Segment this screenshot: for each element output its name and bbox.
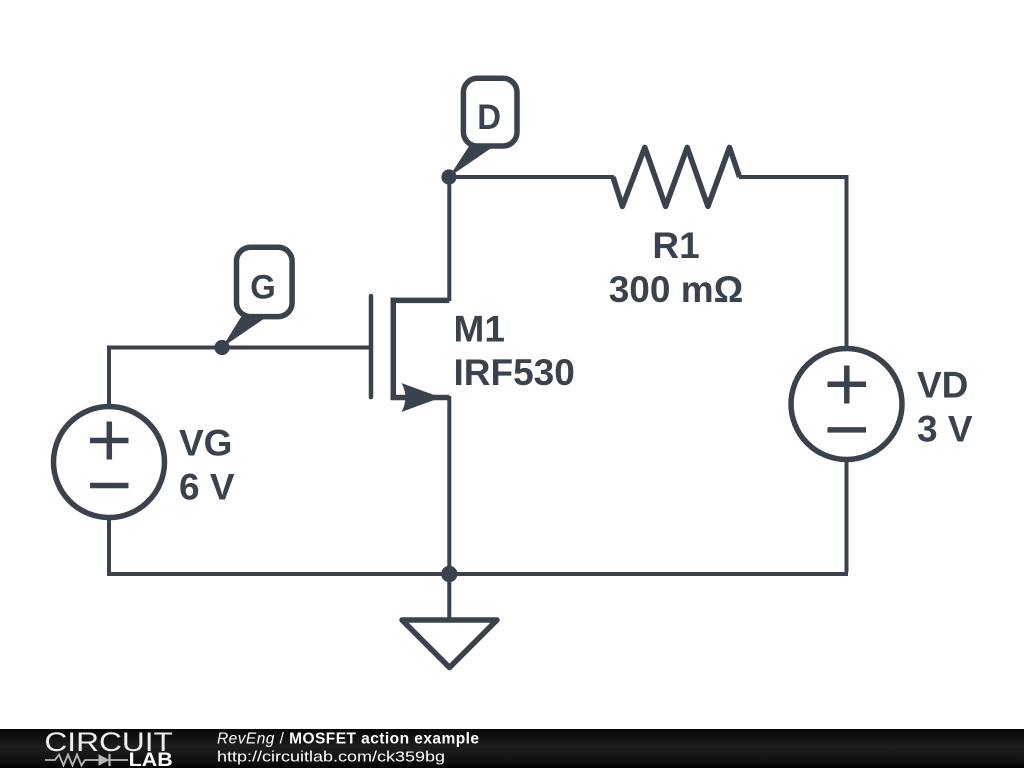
M1 source arrow [402, 383, 442, 412]
VG plus sign [90, 422, 129, 460]
svg-text:R1: R1 [652, 225, 699, 266]
node G dot [214, 340, 229, 355]
VD minus sign [828, 427, 867, 433]
resistor R1 zigzag [613, 147, 740, 206]
svg-text:300 mΩ: 300 mΩ [609, 269, 744, 310]
ground symbol triangle [402, 620, 497, 668]
svg-text:RevEng / MOSFET action example: RevEng / MOSFET action example [217, 731, 479, 748]
junction dot at source/ground rail [441, 566, 457, 582]
svg-text:M1: M1 [454, 309, 505, 350]
svg-text:6 V: 6 V [179, 467, 235, 508]
wire left vertical VG top [107, 346, 111, 409]
M1 gate bar [369, 296, 374, 397]
wire gate horizontal from VG to M1 gate [109, 346, 369, 350]
node D dot [441, 169, 456, 184]
VD plus sign [828, 366, 867, 404]
VG minus sign [90, 483, 129, 489]
VG voltage source circle [54, 407, 165, 518]
M1 source lead [391, 395, 450, 401]
VD voltage source circle [791, 349, 902, 460]
wire ground stem [447, 574, 451, 620]
M1 drain lead [391, 298, 450, 304]
M1 channel bar [391, 298, 397, 401]
CircuitLab logo resistor-diode glyph [45, 755, 128, 766]
wire top from D node to resistor [449, 175, 614, 179]
node D pointer wedge [449, 147, 494, 178]
svg-text:3 V: 3 V [917, 409, 973, 450]
wire VD top vertical and top-right corner [739, 177, 847, 347]
wire VD bottom vertical [845, 461, 849, 572]
svg-text:http://circuitlab.com/ck359bg: http://circuitlab.com/ck359bg [217, 750, 445, 766]
wire drain vertical [447, 175, 451, 301]
svg-text:VG: VG [179, 423, 232, 464]
CircuitLab logo diode cathode bar [108, 754, 110, 766]
svg-text:G: G [250, 268, 276, 306]
svg-text:VD: VD [917, 365, 968, 406]
wire bottom ground rail [107, 572, 848, 576]
svg-text:D: D [477, 97, 501, 137]
wire source vertical [447, 396, 451, 576]
node D label box [463, 78, 517, 146]
CircuitLab logo diode triangle [99, 754, 110, 765]
footer bar [0, 729, 1024, 768]
wire VG bottom to ground rail [107, 516, 111, 576]
svg-text:IRF530: IRF530 [454, 352, 575, 393]
transistor M1 NMOS symbol [371, 296, 449, 400]
svg-text:LAB: LAB [129, 749, 173, 768]
node G pointer wedge [222, 317, 267, 348]
node G label box [237, 247, 293, 316]
